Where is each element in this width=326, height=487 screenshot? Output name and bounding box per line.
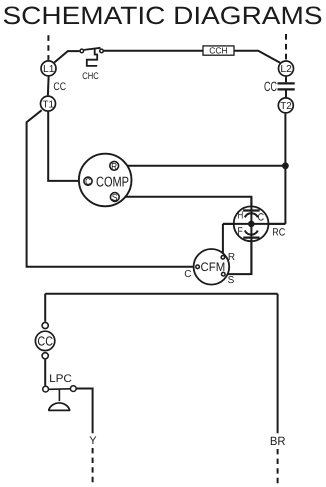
terminal T1 (41, 96, 56, 111)
heater CCH (203, 46, 234, 56)
switch CHC (80, 48, 103, 82)
wire T1 to CFM C (27, 110, 196, 267)
terminal CFM R (221, 255, 225, 259)
svg-text:T1: T1 (43, 99, 55, 110)
terminal L2 (279, 61, 294, 76)
svg-text:CC: CC (37, 334, 53, 349)
wire LPC to Y drop (76, 389, 92, 434)
svg-text:CC: CC (264, 79, 277, 94)
wire rail down to CC coil (44, 294, 46, 322)
svg-text:T2: T2 (280, 101, 292, 112)
svg-text:SCHEMATIC DIAGRAMS: SCHEMATIC DIAGRAMS (3, 2, 323, 30)
terminal CFM C (196, 265, 200, 269)
contact CC blade between L1 and T1 (47, 77, 50, 96)
svg-text:C: C (85, 177, 91, 187)
wire COMP S to RC H (120, 197, 251, 210)
svg-text:H: H (238, 210, 244, 222)
svg-text:R: R (228, 252, 235, 263)
wire COMP R to junction (119, 165, 285, 167)
wire CHC to CCH (104, 50, 203, 52)
wire dashed lead BR (277, 449, 279, 484)
terminal COMP R (110, 160, 119, 171)
svg-text:S: S (228, 275, 235, 286)
svg-text:F: F (238, 225, 243, 237)
switch LPC (43, 373, 77, 411)
contact CC bar upper (278, 82, 295, 84)
svg-text:CC: CC (53, 81, 66, 93)
wire L1 to CHC (54, 51, 79, 62)
svg-text:RC: RC (272, 226, 285, 238)
wire dashed lead above L1 (47, 35, 49, 60)
svg-text:L2: L2 (280, 64, 292, 75)
wire RC C to CFM R riser (222, 224, 224, 255)
wire T2 down to RC C (284, 114, 286, 224)
terminal COMP C (84, 177, 92, 187)
wire rail down to BR (277, 294, 279, 434)
svg-text:C: C (258, 212, 265, 224)
svg-text:R: R (111, 160, 117, 171)
wire RC F to CFM S (226, 239, 252, 274)
svg-text:CCH: CCH (209, 46, 227, 56)
wire control rail (45, 293, 277, 295)
wire RC C horizontal (223, 223, 286, 225)
wire L2 to CC contact (285, 77, 287, 83)
svg-text:S: S (112, 192, 118, 203)
terminal L1 (41, 61, 56, 76)
contact CC bar lower (278, 88, 295, 90)
capacitor RC (223, 197, 286, 274)
svg-text:LPC: LPC (49, 373, 72, 385)
wire CC coil to LPC (44, 360, 46, 386)
svg-text:Y: Y (89, 435, 97, 447)
terminal CFM S (222, 272, 226, 276)
wire CCH to L2 (234, 51, 280, 63)
wire T1 to COMP C (48, 112, 83, 181)
svg-text:BR: BR (270, 434, 286, 448)
svg-text:CFM: CFM (201, 260, 226, 274)
svg-text:C: C (184, 269, 191, 280)
svg-text:L1: L1 (43, 64, 55, 75)
junction T2/R (282, 162, 289, 169)
coil CC (35, 322, 54, 359)
compressor COMP (79, 154, 132, 207)
wire CC contact to T2 (285, 91, 287, 98)
wire dashed lead above L2 (285, 34, 287, 60)
wire dashed lead Y (92, 448, 94, 482)
terminal T2 (278, 98, 293, 113)
fan motor CFM (194, 249, 230, 285)
terminal COMP S (110, 192, 119, 203)
svg-text:CHC: CHC (82, 71, 99, 82)
svg-text:COMP: COMP (96, 174, 129, 190)
